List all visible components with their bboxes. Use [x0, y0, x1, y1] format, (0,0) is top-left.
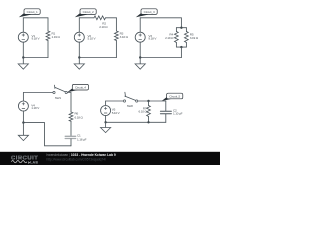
svg-text:1.10 µF: 1.10 µF	[173, 112, 183, 116]
svg-text:1.19 Ω: 1.19 Ω	[52, 35, 61, 39]
parallel bar bottom C3	[176, 46, 186, 48]
svg-text:6.10 Ω: 6.10 Ω	[138, 110, 147, 114]
junction node top C5	[147, 100, 149, 102]
ground C1	[18, 58, 28, 70]
wire left lower C4	[22, 111, 24, 123]
flag Circuit_2	[75, 9, 96, 17]
svg-text:Circuit_2: Circuit_2	[83, 10, 94, 14]
wire left upper C5	[105, 101, 107, 106]
svg-text:3.19 Ω: 3.19 Ω	[190, 36, 199, 40]
svg-text:2.10 Ω: 2.10 Ω	[99, 25, 108, 29]
svg-text:5.10 V: 5.10 V	[88, 37, 97, 41]
svg-text:SW2: SW2	[127, 104, 134, 108]
junction node C2	[78, 56, 80, 58]
CircuitLab logo	[11, 156, 38, 165]
ground C4	[18, 123, 28, 141]
wire bottom path C4	[23, 123, 71, 146]
svg-text:Circuit_3: Circuit_3	[144, 10, 155, 14]
wire top left C2	[79, 17, 94, 19]
ground C3	[135, 58, 145, 70]
wire left lower C2	[78, 42, 80, 57]
voltage source V4	[18, 101, 28, 111]
switch SW1	[53, 85, 67, 93]
wire top left C5	[106, 100, 124, 102]
junction node R7 bottom	[147, 121, 149, 123]
wire left lower C1	[22, 42, 24, 57]
junction node top C3	[180, 27, 182, 29]
resistor R1	[46, 18, 50, 58]
svg-text:3.10 Ω: 3.10 Ω	[120, 35, 129, 39]
wire bottom C2	[79, 57, 116, 59]
resistor R6	[69, 112, 73, 136]
capacitor C1	[65, 136, 76, 138]
junction node C4	[22, 121, 24, 123]
ground C2	[74, 58, 84, 70]
svg-text:Circuit_5: Circuit_5	[169, 94, 180, 98]
wire top right C5	[138, 100, 166, 102]
wire left upper C4	[22, 93, 24, 102]
wire top right C4	[67, 93, 71, 113]
svg-text:http://www.circuitlab.com/c/95: http://www.circuitlab.com/c/9573xejadq74…	[47, 157, 106, 161]
voltage source V2	[74, 32, 84, 42]
flag Circuit_4	[67, 84, 88, 92]
svg-text:SW1: SW1	[55, 96, 62, 100]
flag Circuit_3	[136, 9, 157, 17]
parallel bar top C3	[176, 27, 186, 29]
voltage source V5	[101, 106, 111, 116]
flag Circuit_5	[162, 93, 183, 101]
wire below C1	[70, 139, 72, 146]
resistor R4	[175, 28, 179, 47]
wire left lower C5	[105, 116, 107, 123]
svg-text:2.19 Ω: 2.19 Ω	[165, 36, 174, 40]
svg-text:Circuit_1: Circuit_1	[27, 10, 38, 14]
switch SW2	[123, 92, 137, 102]
junction node C1	[22, 56, 24, 58]
wire bottom C5	[106, 121, 166, 123]
junction node bottom C3	[180, 46, 182, 48]
wire top C1	[23, 17, 48, 19]
resistor R5	[185, 28, 189, 47]
svg-text:1.18 V: 1.18 V	[31, 106, 40, 110]
wire top C4	[23, 92, 53, 94]
wire bottom C1	[23, 57, 48, 59]
svg-text:9.18 V: 9.18 V	[32, 37, 41, 41]
wire left upper C2	[78, 18, 80, 32]
voltage source V3	[135, 32, 145, 42]
svg-text:1.18 µF: 1.18 µF	[77, 137, 87, 141]
ground C5	[101, 122, 111, 132]
wire left lower C3	[139, 42, 141, 57]
wire top C3	[140, 18, 181, 28]
resistor R3	[115, 18, 119, 58]
wire top right C2	[106, 17, 117, 19]
junction node C5	[104, 121, 106, 123]
svg-text:6.18 Ω: 6.18 Ω	[75, 115, 84, 119]
svg-text:▸LAB: ▸LAB	[27, 160, 38, 164]
wire left upper C3	[139, 18, 141, 32]
voltage source V1	[18, 32, 28, 42]
svg-text:9.18 V: 9.18 V	[148, 37, 157, 41]
resistor R7	[147, 101, 151, 122]
svg-text:5.10 V: 5.10 V	[112, 111, 121, 115]
capacitor C2	[160, 101, 171, 122]
resistor R2	[94, 16, 106, 20]
svg-text:Circuit_4: Circuit_4	[75, 86, 86, 90]
wire bottom C3	[140, 57, 181, 59]
wire bottom stub C3	[180, 47, 182, 57]
flag Circuit_1	[19, 9, 40, 17]
junction node C3	[139, 56, 141, 58]
wire left upper C1	[22, 18, 24, 32]
